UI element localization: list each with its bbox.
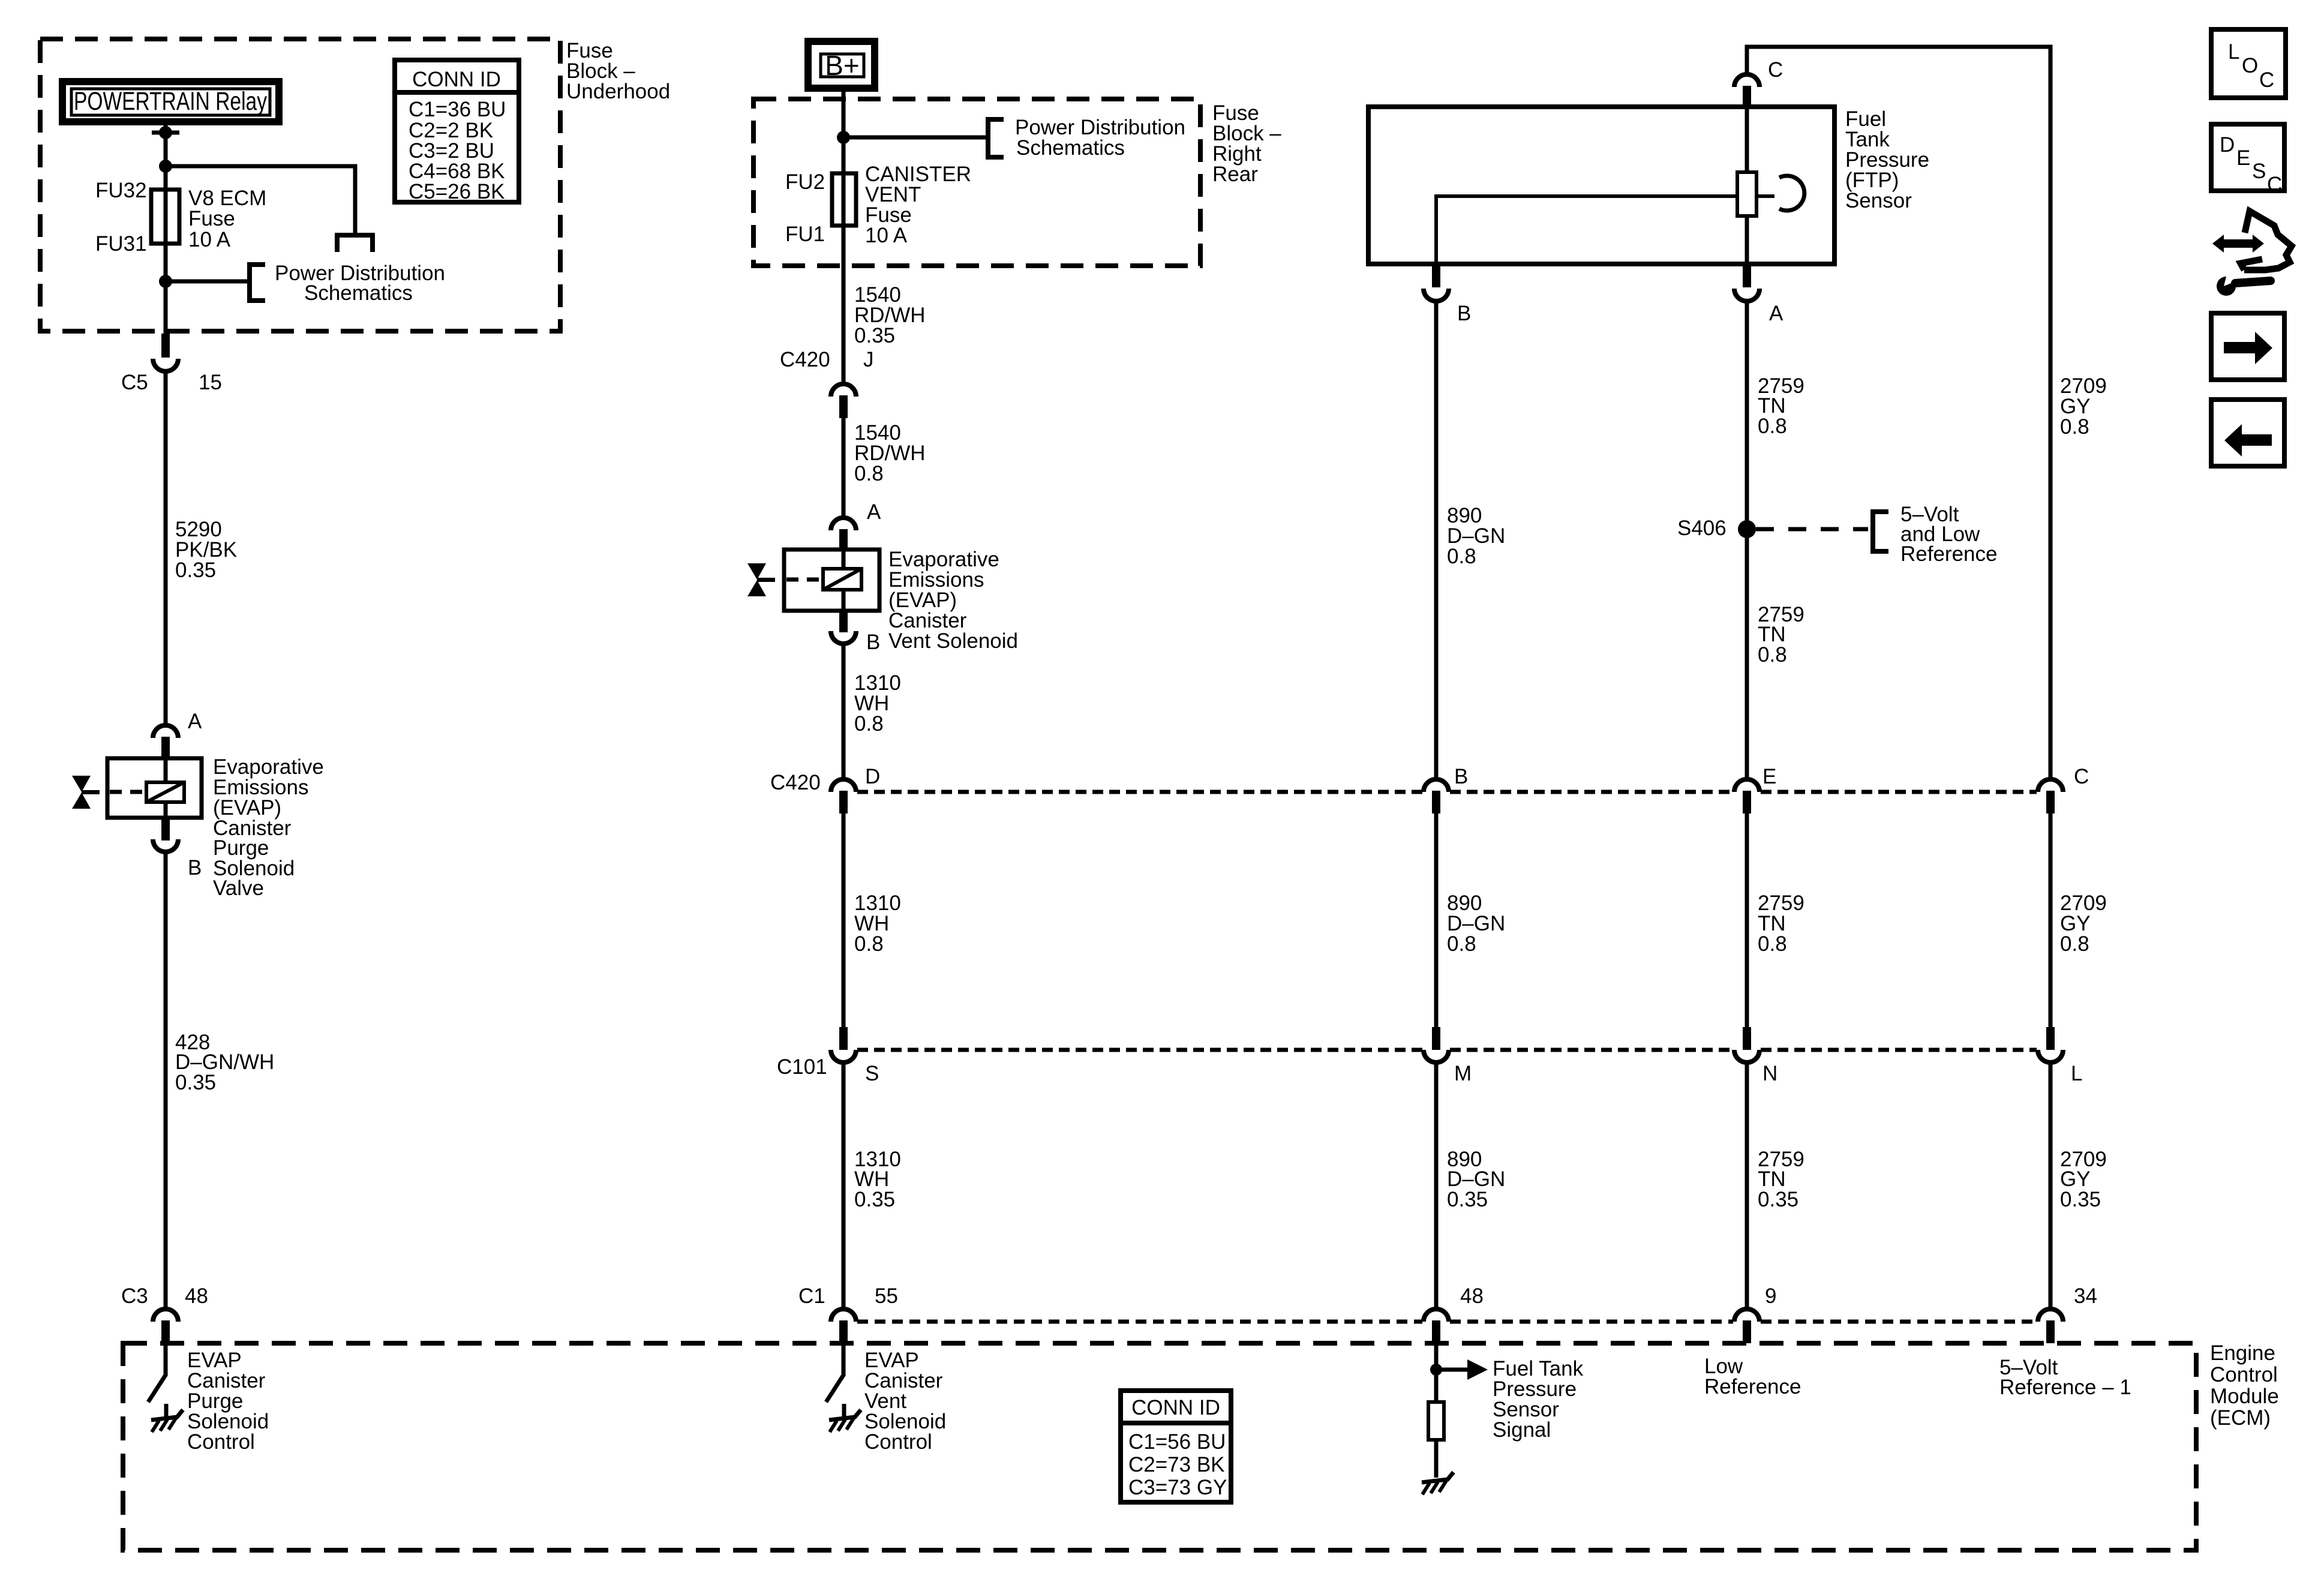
- svg-text:Sensor: Sensor: [1845, 189, 1912, 212]
- svg-text:C5: C5: [121, 371, 148, 394]
- label V8 ECM Fuse 10 A: [188, 187, 266, 251]
- wire: element to A pin: [1745, 216, 1749, 265]
- node B+ (battery feed): [808, 41, 875, 88]
- sensing element (FTP): [1737, 172, 1756, 216]
- label 9: [1765, 1284, 1776, 1308]
- label C (row C420): [2074, 765, 2089, 788]
- switch lever (purge driver): [148, 1375, 166, 1402]
- connector C420 pin B: [1424, 779, 1449, 1028]
- wire: pin to coil (vent): [842, 550, 846, 569]
- svg-text:C3: C3: [121, 1284, 148, 1308]
- relay K: POWERTRAIN Relay box: [62, 82, 279, 122]
- svg-text:0.35: 0.35: [175, 559, 216, 582]
- off-page bracket (power distribution, right rear): [988, 119, 1004, 157]
- label B (purge): [188, 856, 202, 879]
- svg-text:E: E: [1762, 765, 1776, 788]
- label Fuel Tank Pressure (FTP) Sensor: [1845, 107, 1929, 212]
- wire label 890 D-GN 0.8 (a): [1447, 504, 1505, 568]
- label B+: [825, 50, 860, 81]
- wire: internal to B pin: [1436, 196, 1737, 265]
- connector C3 pin 48: [153, 1309, 178, 1343]
- node: junction to power distribution branch 2: [159, 275, 172, 288]
- wire label 2759 TN 0.35: [1758, 1148, 1804, 1211]
- label A (FTP): [1769, 302, 1783, 325]
- resistor (FTP pull): [1428, 1402, 1444, 1440]
- svg-text:(ECM): (ECM): [2210, 1406, 2271, 1430]
- connector C101 pin L: [2038, 1027, 2063, 1308]
- fuse block right rear (dashed box): [753, 99, 1200, 266]
- label C1: [798, 1284, 825, 1308]
- wire: relay output down to C5: [164, 121, 168, 334]
- svg-text:L: L: [2071, 1062, 2082, 1085]
- coil (vent solenoid): [823, 569, 861, 590]
- label C5: [121, 371, 148, 394]
- label CANISTER VENT Fuse 10 A: [865, 163, 971, 247]
- label B (vent): [866, 631, 880, 654]
- connector C1 pin 55: [831, 1309, 856, 1343]
- wire: into ECM (vent control): [842, 1343, 846, 1376]
- svg-text:C1=56 BU: C1=56 BU: [1128, 1430, 1226, 1454]
- svg-text:D: D: [2220, 133, 2235, 157]
- FTP sensor box: [1368, 107, 1834, 264]
- svg-text:0.35: 0.35: [854, 324, 895, 347]
- svg-text:Vent Solenoid: Vent Solenoid: [888, 629, 1018, 653]
- svg-text:0.8: 0.8: [1758, 415, 1787, 438]
- wire label 1540 RD/WH 0.35: [854, 283, 926, 347]
- conn id table (ECM): [1121, 1391, 1231, 1502]
- label 5-Volt and Low Reference: [1900, 503, 1997, 566]
- svg-text:Reference – 1: Reference – 1: [1999, 1376, 2131, 1399]
- wire label 1310 WH 0.35: [854, 1148, 901, 1211]
- label A (purge): [188, 710, 202, 733]
- svg-text:C5=26 BK: C5=26 BK: [409, 180, 505, 203]
- svg-text:Control: Control: [864, 1430, 932, 1454]
- svg-text:CONN ID: CONN ID: [1131, 1396, 1220, 1419]
- off-page bracket (power distribution schematics, underhood): [250, 265, 265, 301]
- label 15: [199, 371, 222, 394]
- connector pin 9 (low reference): [1734, 1309, 1759, 1343]
- label 48 (purge control pin): [185, 1284, 208, 1308]
- node: FTP signal junction: [1430, 1364, 1442, 1376]
- label Power Distribution Schematics (right rear): [1015, 116, 1185, 160]
- connector B (vent solenoid): [831, 611, 856, 779]
- label CONN ID (ECM): [1128, 1396, 1227, 1499]
- wire label 2709 GY 0.8 (a): [2060, 374, 2107, 439]
- label DESC: [2220, 133, 2282, 196]
- label Fuse Block - Right Rear: [1212, 101, 1281, 186]
- label POWERTRAIN Relay: [74, 87, 267, 116]
- label FU2: [785, 170, 825, 194]
- connector C101 pin N: [1734, 1027, 1759, 1308]
- svg-text:C420: C420: [780, 348, 830, 371]
- svg-text:0.8: 0.8: [1758, 932, 1787, 956]
- label EVAP Canister Purge Solenoid Control: [187, 1349, 269, 1454]
- svg-text:0.35: 0.35: [2060, 1188, 2101, 1211]
- svg-text:C420: C420: [770, 771, 821, 794]
- connector C101 pin S: [831, 1027, 856, 1308]
- svg-text:J: J: [863, 348, 874, 371]
- svg-text:0.35: 0.35: [175, 1071, 216, 1094]
- label D: [865, 765, 880, 788]
- svg-text:FU1: FU1: [785, 223, 825, 246]
- wire: branch right then down: [166, 166, 355, 234]
- svg-text:C: C: [2259, 68, 2274, 92]
- wire: coil to bottom pin (vent): [842, 590, 846, 611]
- label B (FTP): [1457, 302, 1471, 325]
- label B (row C420): [1454, 765, 1468, 788]
- icon LOC box: [2211, 29, 2286, 98]
- label LOC: [2228, 40, 2274, 92]
- svg-text:Reference: Reference: [1900, 542, 1997, 566]
- svg-text:O: O: [2242, 54, 2258, 77]
- icon double arrow: [2212, 235, 2264, 253]
- wire: resistor to ground: [1434, 1440, 1439, 1478]
- svg-text:48: 48: [1460, 1284, 1484, 1308]
- connector A (FTP sensor): [1734, 266, 1759, 779]
- label FU1: [785, 223, 825, 246]
- node: junction to power distribution branch 1: [159, 160, 172, 173]
- wire label 1540 RD/WH 0.8: [854, 421, 926, 485]
- svg-text:C1=36 BU: C1=36 BU: [409, 98, 506, 121]
- svg-text:C101: C101: [777, 1055, 827, 1079]
- C101 inline row (dashed): [857, 1048, 2037, 1052]
- label FU32: [95, 179, 147, 202]
- svg-text:S406: S406: [1677, 517, 1727, 540]
- label Power Distribution Schematics (underhood): [275, 262, 445, 305]
- svg-text:D: D: [865, 765, 880, 788]
- connector B (FTP sensor): [1424, 266, 1449, 779]
- dashed link S406 to reference bracket: [1756, 527, 1868, 532]
- wire label 890 D-GN 0.35: [1447, 1148, 1505, 1211]
- svg-text:Reference: Reference: [1704, 1375, 1801, 1398]
- wire label 890 D-GN 0.8 (b): [1447, 891, 1505, 956]
- connector C420 pin J: [831, 384, 856, 518]
- wire label 1310 WH 0.8 (a): [854, 671, 901, 736]
- wire label 2709 GY 0.35: [2060, 1148, 2107, 1211]
- label Engine Control Module (ECM): [2210, 1341, 2279, 1430]
- fuse FU2/FU1 CANISTER VENT fuse: [832, 173, 856, 226]
- svg-text:10 A: 10 A: [865, 224, 908, 247]
- label CONN ID (underhood): [409, 68, 506, 203]
- label EVAP Canister Vent Solenoid Control: [864, 1349, 946, 1454]
- wire: FTP C loop (up and over to GY column): [1747, 47, 2050, 779]
- svg-text:0.35: 0.35: [1758, 1188, 1798, 1211]
- wire label 2759 TN 0.8 (a): [1758, 374, 1804, 438]
- label 55: [875, 1284, 898, 1308]
- ground (FTP internal): [1422, 1472, 1454, 1494]
- svg-text:B: B: [1457, 302, 1471, 325]
- icon right-arrow box: [2211, 313, 2284, 380]
- icon wrench: [2217, 272, 2271, 296]
- svg-text:0.8: 0.8: [1447, 932, 1476, 956]
- svg-text:A: A: [188, 710, 202, 733]
- svg-text:S: S: [865, 1062, 879, 1085]
- wire: pin to coil: [164, 758, 168, 782]
- label E: [1762, 765, 1776, 788]
- off-page bracket (5-volt and low reference): [1873, 512, 1888, 551]
- icon left-arrow box: [2211, 400, 2284, 466]
- svg-text:FU31: FU31: [95, 232, 147, 256]
- label C (FTP): [1768, 58, 1783, 82]
- svg-text:Module: Module: [2210, 1385, 2279, 1408]
- label J: [863, 348, 874, 371]
- label C3: [121, 1284, 148, 1308]
- svg-text:Engine: Engine: [2210, 1341, 2275, 1365]
- svg-text:0.8: 0.8: [1758, 643, 1787, 667]
- connector C420 pin C: [2038, 779, 2063, 1028]
- wire: B+ down through fuse block: [842, 88, 846, 383]
- ground (vent driver): [829, 1410, 861, 1432]
- svg-text:0.35: 0.35: [1447, 1188, 1488, 1211]
- ground stub (vent driver): [842, 1404, 846, 1419]
- svg-text:0.8: 0.8: [854, 712, 884, 736]
- svg-text:Underhood: Underhood: [566, 80, 670, 103]
- svg-text:C: C: [2267, 173, 2282, 196]
- svg-text:C: C: [2074, 765, 2089, 788]
- svg-text:C3=73 GY: C3=73 GY: [1128, 1476, 1227, 1499]
- svg-text:FU32: FU32: [95, 179, 147, 202]
- svg-text:Schematics: Schematics: [304, 281, 413, 305]
- label C420 (row): [770, 771, 821, 794]
- label 48 (FTP signal pin): [1460, 1284, 1484, 1308]
- node: junction to power distribution (right rear): [837, 131, 850, 144]
- connector A (vent solenoid): [831, 518, 856, 551]
- svg-text:0.8: 0.8: [854, 462, 884, 485]
- wire: coil to bottom pin: [164, 802, 168, 818]
- ECM inline connector row (dotted): [857, 1320, 2037, 1324]
- wire label 2709 GY 0.8 (b): [2060, 891, 2107, 956]
- connector C420 pin E: [1734, 779, 1759, 1028]
- icon wrench/harness: [2241, 211, 2292, 270]
- label S406: [1677, 517, 1727, 540]
- wire: branch to bracket (right rear): [843, 136, 987, 140]
- svg-text:E: E: [2236, 146, 2250, 170]
- svg-text:A: A: [867, 500, 881, 524]
- svg-text:15: 15: [199, 371, 222, 394]
- wire label 2759 TN 0.8 (b): [1758, 603, 1804, 667]
- svg-text:34: 34: [2074, 1284, 2097, 1308]
- svg-text:Rear: Rear: [1212, 163, 1258, 186]
- svg-text:Schematics: Schematics: [1016, 136, 1125, 160]
- svg-text:0.8: 0.8: [2060, 932, 2089, 956]
- connector C101 pin M: [1424, 1027, 1449, 1308]
- svg-text:B: B: [188, 856, 202, 879]
- label L: [2071, 1062, 2082, 1085]
- label C101: [777, 1055, 827, 1079]
- wire: branch to bracket: [166, 280, 248, 284]
- svg-text:B+: B+: [825, 50, 860, 81]
- fuse FU32/FU31 V8 ECM Fuse 10A: [151, 190, 179, 244]
- svg-text:Valve: Valve: [213, 876, 264, 900]
- svg-text:0.8: 0.8: [2060, 415, 2089, 439]
- connector A (purge solenoid): [153, 725, 178, 760]
- pressure port crescent (FTP): [1779, 176, 1804, 211]
- coil (purge solenoid): [146, 782, 184, 802]
- C420 inline row (dashed): [857, 790, 2037, 794]
- svg-text:Control: Control: [187, 1430, 255, 1454]
- svg-text:0.8: 0.8: [854, 932, 884, 956]
- wire label 5290 PK/BK 0.35: [175, 518, 237, 582]
- off-page bracket (power distribution, top): [337, 235, 373, 252]
- connector C (FTP sensor): [1734, 74, 1759, 107]
- svg-text:L: L: [2228, 40, 2239, 64]
- svg-text:10 A: 10 A: [188, 228, 231, 251]
- signal arrow (FTP): [1436, 1359, 1488, 1380]
- conn id table (underhood): [395, 60, 519, 202]
- dashed link valve-coil (purge): [110, 790, 146, 794]
- wire: C into sensing element: [1745, 107, 1749, 172]
- label 34: [2074, 1284, 2097, 1308]
- connector B (purge solenoid): [153, 818, 178, 1308]
- wire: into ECM (FTP signal): [1434, 1343, 1439, 1402]
- icon DESC box: [2211, 124, 2284, 191]
- svg-text:48: 48: [185, 1284, 208, 1308]
- label S: [865, 1062, 879, 1085]
- svg-text:C2=73 BK: C2=73 BK: [1128, 1453, 1225, 1476]
- ground stub (purge driver): [164, 1404, 169, 1419]
- valve symbol (vent): [747, 563, 775, 596]
- wire: into ECM (purge control): [164, 1343, 168, 1376]
- solenoid: EVAP canister purge solenoid valve box: [107, 758, 202, 818]
- label Low Reference: [1704, 1355, 1801, 1398]
- label Evaporative Emissions (EVAP) Canister Vent Solenoid: [888, 548, 1018, 653]
- connector pin 34 (5-volt ref): [2038, 1309, 2063, 1343]
- label A (vent): [867, 500, 881, 524]
- svg-text:55: 55: [875, 1284, 898, 1308]
- dashed link valve-coil (vent): [786, 578, 823, 582]
- svg-text:M: M: [1454, 1062, 1472, 1085]
- label Fuel Tank Pressure Sensor Signal: [1493, 1357, 1584, 1442]
- label FU31: [95, 232, 147, 256]
- wire label 428 D-GN/WH 0.35: [175, 1031, 274, 1094]
- label C420 (J): [780, 348, 830, 371]
- wire label 1310 WH 0.8 (b): [854, 891, 901, 956]
- label Fuse Block - Underhood: [566, 39, 670, 103]
- node: junction bar below relay: [152, 126, 179, 139]
- label Evaporative Emissions (EVAP) Canister Purge Solenoid Valve: [213, 755, 324, 900]
- svg-text:0.8: 0.8: [1447, 545, 1476, 568]
- svg-text:Fuse: Fuse: [188, 207, 235, 230]
- svg-text:C: C: [1768, 58, 1783, 82]
- svg-text:Signal: Signal: [1493, 1418, 1551, 1442]
- label 5-Volt Reference - 1: [1999, 1356, 2131, 1399]
- svg-text:A: A: [1769, 302, 1783, 325]
- svg-text:POWERTRAIN Relay: POWERTRAIN Relay: [74, 87, 267, 116]
- connector pin 48 (FTP signal): [1424, 1309, 1449, 1343]
- svg-text:N: N: [1762, 1062, 1777, 1085]
- solenoid: EVAP canister vent solenoid box: [784, 550, 879, 611]
- ground (purge driver): [151, 1410, 183, 1432]
- connector C5 pin 15: [153, 334, 178, 725]
- svg-text:9: 9: [1765, 1284, 1776, 1308]
- wire label 2759 TN 0.8 (c): [1758, 891, 1804, 956]
- label N: [1762, 1062, 1777, 1085]
- fuse block underhood (dashed box): [40, 39, 560, 331]
- label M: [1454, 1062, 1472, 1085]
- svg-text:B: B: [1454, 765, 1468, 788]
- connector C420 pin D: [831, 779, 856, 1028]
- svg-text:C1: C1: [798, 1284, 825, 1308]
- splice S406: [1738, 520, 1756, 538]
- svg-text:S: S: [2252, 160, 2266, 183]
- svg-text:FU2: FU2: [785, 170, 825, 194]
- svg-text:CONN ID: CONN ID: [412, 68, 501, 91]
- switch lever (vent driver): [826, 1375, 843, 1402]
- svg-text:Control: Control: [2210, 1363, 2278, 1386]
- svg-text:0.35: 0.35: [854, 1188, 895, 1211]
- valve symbol (purge): [72, 776, 100, 809]
- pressure port link (FTP): [1756, 194, 1774, 198]
- svg-text:B: B: [866, 631, 880, 654]
- ECM box (dashed): [123, 1343, 2196, 1550]
